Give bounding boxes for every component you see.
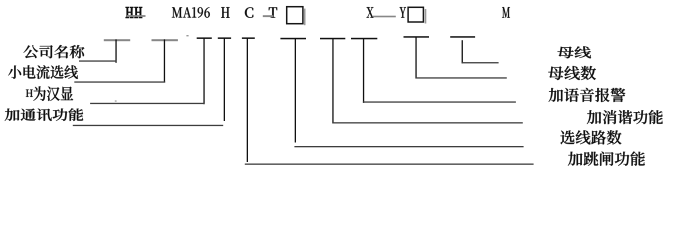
- leader drop to harmonic line: [332, 39, 333, 124]
- label 小电流选线 (small-current line selection): [8, 65, 78, 79]
- label T (trip code): [269, 7, 278, 17]
- label HH (company code): [126, 7, 142, 18]
- connector line to Chinese-display label: [90, 103, 205, 104]
- tick under H: [197, 37, 212, 39]
- label M (busbar code): [502, 7, 510, 17]
- connector line to line-count label: [294, 146, 523, 147]
- label 为汉显 (means Chinese display): [33, 86, 73, 101]
- connector line to trip-function label: [245, 164, 534, 165]
- tick under Y and box 2: [404, 36, 430, 38]
- label 母线数 (number of busbars): [548, 66, 596, 80]
- label C (communication code): [245, 7, 253, 17]
- leader drop to trip-function line: [247, 38, 248, 162]
- connector line to busbar label: [462, 62, 499, 63]
- connector line to busbar-count label: [415, 77, 506, 78]
- connector line to voice-alarm label: [363, 101, 516, 102]
- tick under X: [351, 38, 377, 40]
- grey underline through HH: [127, 15, 146, 17]
- label 加语音报警 (with voice alarm): [549, 88, 626, 102]
- label 加通讯功能 (with communication function): [5, 108, 84, 121]
- connector line to line-selection label: [74, 81, 165, 82]
- grey dash left of T: [263, 15, 274, 17]
- label H (Chinese display code): [221, 7, 229, 18]
- leader drop to Chinese-display line: [203, 38, 204, 104]
- tick under box 1: [280, 38, 306, 40]
- tick under HH: [104, 39, 130, 41]
- placeholder box 1 (line count digit): [287, 7, 306, 26]
- leader drop to communication line: [224, 38, 225, 121]
- label 加消谐功能 (with harmonic elimination): [587, 110, 663, 124]
- speck near display label line: [115, 100, 117, 102]
- tick under M column: [450, 36, 475, 38]
- leader drop to busbar line: [462, 40, 463, 63]
- leader drop to line-count line: [295, 39, 296, 143]
- label MA196 (series code): [172, 7, 210, 18]
- label 选线路数 (number of selected lines): [560, 130, 621, 144]
- tick under MA196: [152, 39, 178, 41]
- label 母线 (busbar): [558, 46, 592, 58]
- leader drop to company-name line: [115, 39, 116, 62]
- grey line between X and Y: [373, 16, 396, 18]
- label Y (voice-alarm code): [400, 7, 406, 17]
- placeholder box 2 (busbar count digit): [408, 7, 426, 23]
- leader drop to line-selection line: [164, 39, 165, 82]
- label 公司名称 (company name): [24, 45, 85, 58]
- label H prefix of 汉显 label: [26, 90, 33, 97]
- leader drop to voice-alarm line: [363, 39, 364, 103]
- connector line to company name label: [79, 60, 116, 61]
- tick under C: [218, 37, 231, 39]
- tick right of box 1: [320, 38, 345, 40]
- speck above tick row: [186, 35, 188, 36]
- connector line to communication label: [73, 125, 223, 126]
- tick under T: [242, 37, 255, 39]
- label X (harmonic-elimination code): [367, 7, 374, 17]
- leader drop to busbar-count line: [415, 37, 416, 79]
- connector line to harmonic label: [332, 122, 523, 123]
- label 加跳闸功能 (with trip function): [568, 152, 645, 166]
